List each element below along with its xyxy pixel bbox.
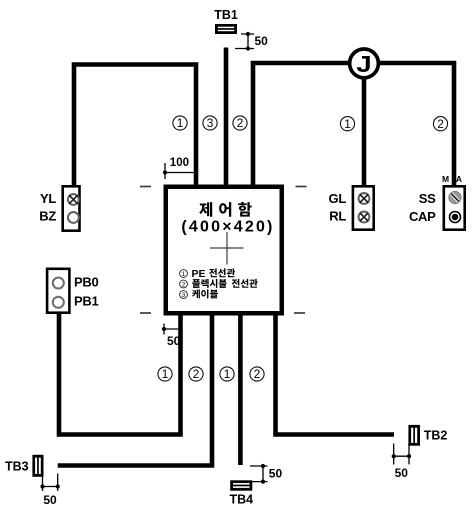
wire number 1 (GL branch)	[340, 117, 354, 131]
svg-text:50: 50	[167, 334, 181, 348]
control box 제어함 400x420	[166, 187, 282, 314]
buzzer BZ	[68, 212, 79, 223]
svg-text:2: 2	[254, 367, 261, 381]
wire number 2 (SS branch)	[433, 117, 447, 131]
label 제 어 함	[199, 202, 251, 217]
legend line 2: flexible conduit	[180, 279, 258, 289]
extension dash bottom-left	[140, 312, 151, 314]
svg-text:PB1: PB1	[74, 294, 98, 309]
svg-text:SS: SS	[419, 191, 436, 206]
component box YL/BZ	[63, 186, 80, 230]
svg-text:100: 100	[170, 157, 189, 169]
svg-text:TB2: TB2	[424, 429, 448, 443]
svg-text:PE: PE	[192, 268, 206, 280]
terminal block TB2	[408, 425, 420, 446]
dimension 50 at box bottom-left	[164, 324, 178, 335]
wire J down to GL/RL	[362, 63, 367, 187]
wire number 2 (bottom fourth)	[250, 367, 264, 381]
legend line 3: cable	[180, 289, 218, 299]
lamp YL	[68, 194, 79, 205]
svg-text:2: 2	[193, 367, 200, 381]
wire TB1 to control box top (cable 3)	[224, 48, 229, 188]
svg-text:CAP: CAP	[409, 209, 436, 224]
svg-text:(400×420): (400×420)	[181, 219, 274, 236]
extension dash bottom-right	[294, 312, 305, 314]
selector switch SS	[449, 191, 461, 203]
svg-text:1: 1	[224, 367, 231, 381]
wire YL/BZ riser to control box top-left	[74, 65, 196, 188]
svg-text:2: 2	[182, 282, 186, 289]
lamp RL	[359, 212, 370, 223]
terminal block TB4	[230, 480, 252, 490]
svg-text:3: 3	[207, 116, 214, 130]
wire number 2 (top right of box)	[233, 116, 247, 130]
wire number 1 (bottom first)	[158, 367, 172, 381]
dimension 50 at TB3	[43, 474, 58, 492]
component box SS/CAP	[444, 186, 465, 229]
svg-text:GL: GL	[329, 191, 347, 206]
svg-text:YL: YL	[40, 191, 56, 206]
push button PB0	[53, 278, 64, 289]
svg-text:TB1: TB1	[214, 8, 238, 22]
terminal block TB3	[32, 455, 43, 477]
push button CAP	[450, 212, 461, 223]
svg-text:TB3: TB3	[5, 460, 29, 474]
svg-text:3: 3	[182, 292, 186, 299]
extension dash top-right	[296, 186, 307, 188]
junction box J	[350, 49, 379, 78]
svg-text:1: 1	[177, 116, 184, 130]
svg-text:50: 50	[43, 493, 57, 507]
wire number 1 (top left)	[173, 116, 187, 130]
svg-text:50: 50	[269, 467, 283, 481]
wire control box bottom to TB4	[238, 313, 243, 465]
component box GL/RL	[353, 186, 374, 229]
component box PB0/PB1	[47, 269, 69, 313]
svg-text:1: 1	[182, 271, 186, 278]
lamp GL	[359, 193, 370, 204]
svg-text:A: A	[456, 174, 462, 184]
dimension 50 at TB2	[394, 444, 409, 465]
svg-text:RL: RL	[329, 209, 346, 224]
dimension 100 at box top-left	[165, 163, 194, 179]
svg-text:50: 50	[395, 466, 409, 480]
terminal block TB1	[215, 24, 237, 34]
push button PB1	[53, 297, 64, 308]
svg-text:TB4: TB4	[230, 493, 254, 507]
wire PB down-right to control box bottom (1)	[59, 312, 181, 435]
svg-text:M: M	[442, 174, 449, 184]
wire number 3 (top middle)	[203, 116, 217, 130]
legend line 1: PE conduit	[180, 268, 235, 280]
extension dash top-left	[140, 186, 151, 188]
svg-text:BZ: BZ	[39, 209, 56, 224]
wire control box top-right to J to SS	[253, 63, 454, 187]
svg-text:PB0: PB0	[74, 275, 98, 290]
svg-text:1: 1	[162, 367, 169, 381]
wire number 2 (bottom second)	[189, 367, 203, 381]
wire TB3 right-up to control box bottom (2)	[58, 313, 212, 466]
svg-text:50: 50	[255, 34, 269, 48]
dimension 50 at TB1	[235, 34, 254, 49]
wire number 1 (bottom third)	[220, 367, 234, 381]
wire control box bottom right to TB2	[276, 313, 395, 435]
svg-text:J: J	[356, 52, 371, 78]
svg-text:2: 2	[437, 117, 444, 131]
dimension 50 at TB4	[250, 466, 268, 482]
svg-text:2: 2	[237, 116, 244, 130]
center mark cross	[210, 232, 244, 265]
svg-text:1: 1	[344, 117, 351, 131]
